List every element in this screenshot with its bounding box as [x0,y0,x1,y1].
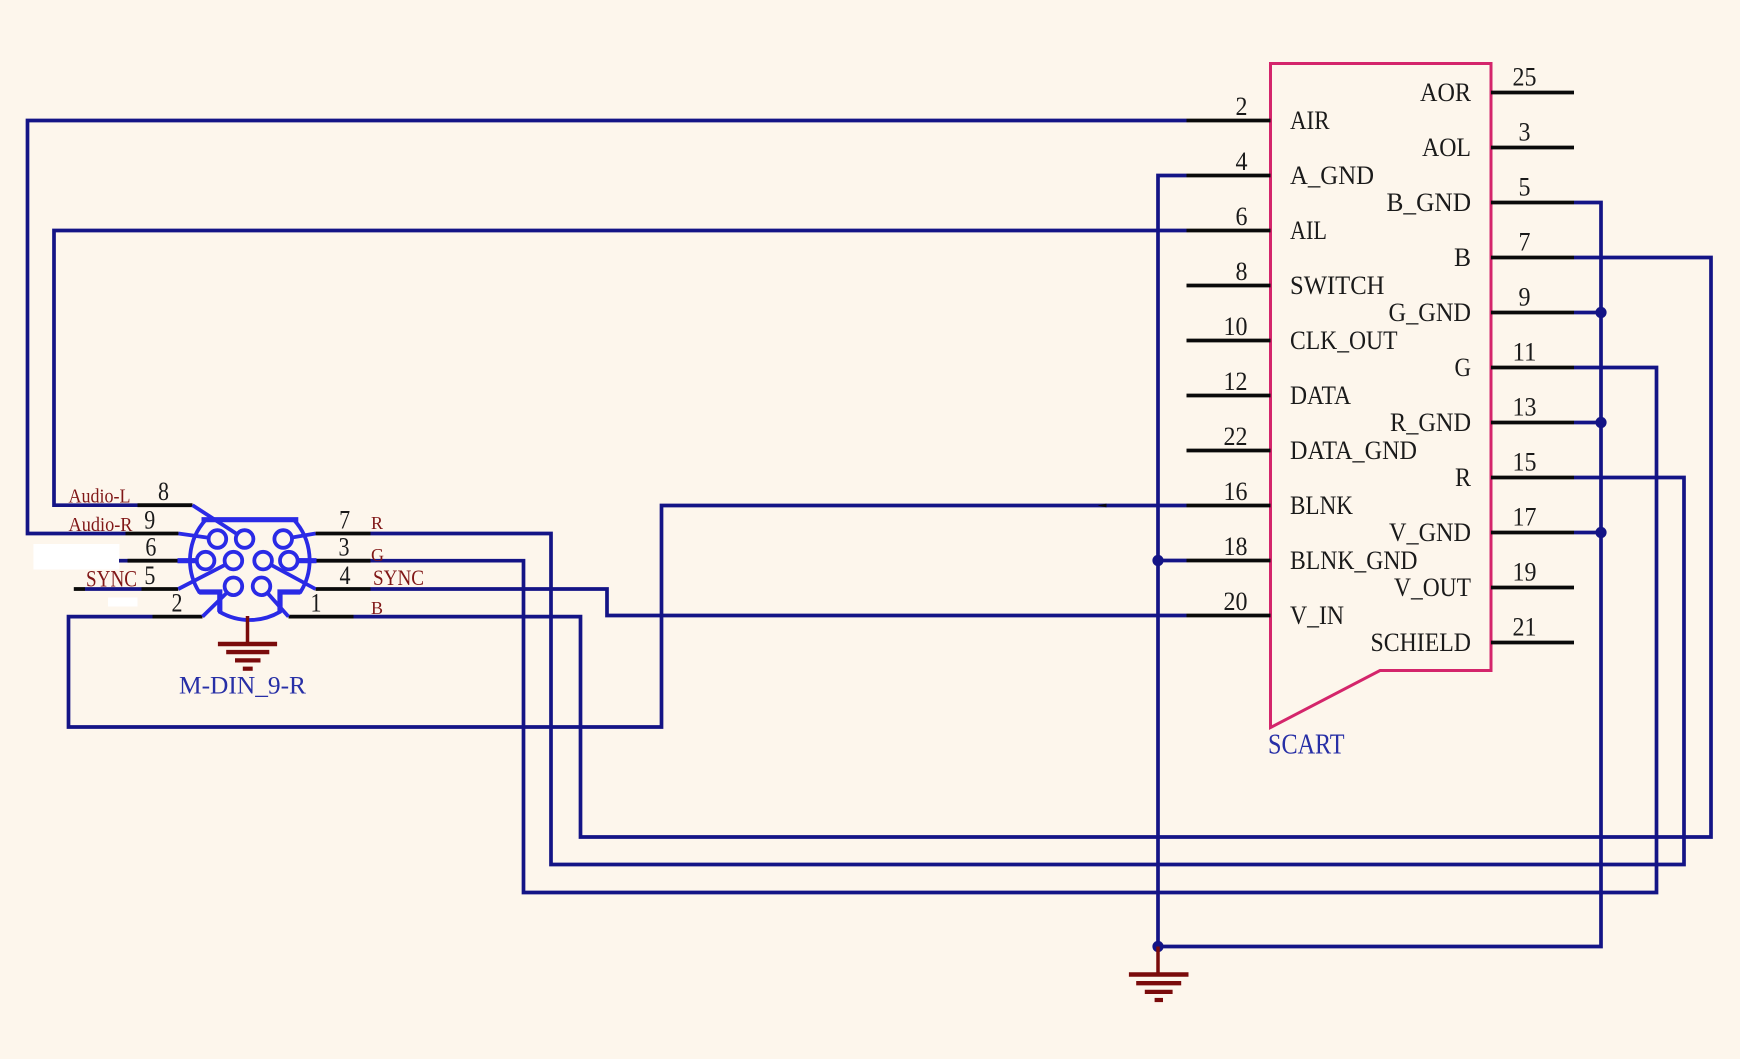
svg-text:R: R [371,513,383,533]
svg-text:AOR: AOR [1420,78,1472,107]
wire net GND: SCART pin4 A_GND vertical [1158,176,1187,947]
wire net GND: link to SCART pin17 [1574,531,1601,535]
white-out patch left of DIN pin 6 [33,544,119,570]
junction dot at ground [1152,941,1163,952]
SCART pin 2 AIR [1187,92,1331,135]
svg-text:5: 5 [1519,173,1531,202]
SCART pin 6 AIL [1187,202,1328,245]
svg-text:B: B [1454,243,1471,272]
svg-text:Audio-R: Audio-R [69,514,134,536]
svg-text:5: 5 [144,561,155,590]
DIN outline right notch (thick) [280,592,300,612]
SCART pin 9 G_GND [1389,283,1575,328]
svg-text:2: 2 [172,589,183,618]
wire net GND: link to SCART pin9 [1574,311,1601,315]
SCART pin 22 DATA_GND [1187,422,1418,465]
svg-text:SWITCH: SWITCH [1290,271,1385,300]
svg-text:2: 2 [1236,92,1248,121]
svg-text:3: 3 [1519,118,1531,147]
svg-text:3: 3 [339,533,350,562]
svg-text:12: 12 [1224,367,1248,396]
svg-text:22: 22 [1224,422,1248,451]
svg-text:G: G [371,545,384,565]
svg-text:DATA_GND: DATA_GND [1290,436,1417,465]
wire net G: DIN pin3 to SCART pin11 [371,368,1657,893]
wire net AIL: SCART pin6 to DIN pin8 [54,231,1187,506]
DIN outline left notch (thick) [199,592,220,612]
svg-text:G: G [1455,353,1472,382]
DIN outline top chord (thick) [202,517,299,522]
wire net B: DIN pin1 to SCART pin7 [354,258,1712,838]
svg-text:M-DIN_9-R: M-DIN_9-R [179,673,306,700]
DIN pin 9 stub [126,506,218,540]
SCART pin 12 DATA [1187,367,1352,410]
svg-text:BLNK_GND: BLNK_GND [1290,546,1418,575]
svg-text:1: 1 [311,589,322,618]
svg-text:SCART: SCART [1268,729,1345,761]
DIN pin 6 stub [128,533,206,562]
SCART pin 11 G [1455,338,1575,383]
SCART pin 20 V_IN [1187,587,1345,630]
DIN pin circles [197,530,298,595]
DIN pin 3 link (thick) [289,558,317,563]
DIN pin 5 stub [142,561,234,590]
svg-text:8: 8 [158,477,169,506]
svg-text:V_OUT: V_OUT [1394,573,1471,602]
svg-text:19: 19 [1513,558,1537,587]
SCART pin 21 SCHIELD [1371,613,1575,658]
svg-text:SYNC: SYNC [373,565,424,590]
SCART pin 16 BLNK [1187,477,1354,520]
svg-text:BLNK: BLNK [1290,491,1353,520]
SCART pin 7 B [1454,228,1574,273]
wire net SYNC stub at DIN pin5 [85,587,142,591]
ground symbol at DIN shield [218,616,277,669]
svg-text:A_GND: A_GND [1290,161,1374,190]
DIN pin 7 stub [283,506,370,540]
svg-text:V_GND: V_GND [1389,518,1471,547]
svg-text:9: 9 [144,506,155,535]
SCART pin 15 R [1455,448,1574,493]
svg-text:Audio-L: Audio-L [69,486,131,508]
wire net R: DIN pin7 to SCART pin15 [371,478,1685,865]
svg-text:AOL: AOL [1422,133,1471,162]
wire net AIR: SCART pin2 to DIN pin9 [28,121,1187,534]
junction dot at pin13 [1595,417,1606,428]
junction dot at pin9 [1595,307,1606,318]
svg-text:B: B [371,598,383,618]
SCART pin 18 BLNK_GND [1187,532,1418,575]
SCART pin 10 CLK_OUT [1187,312,1398,355]
SCART pin 13 R_GND [1390,393,1574,438]
svg-text:SCHIELD: SCHIELD [1371,628,1472,657]
DIN pin 6 link (thick) [178,558,206,563]
wire net GND: stub link to SCART pin18 [1158,559,1187,563]
svg-text:7: 7 [339,506,350,535]
svg-text:9: 9 [1519,283,1531,312]
svg-text:18: 18 [1224,532,1248,561]
wire net V_IN/SYNC: SCART pin20 to DIN pin4 [371,589,1187,616]
DIN pin 4 stub [263,561,370,590]
svg-text:15: 15 [1513,448,1537,477]
junction dot at pin18 [1152,555,1163,566]
svg-text:SYNC: SYNC [86,567,137,593]
svg-text:11: 11 [1513,338,1537,367]
svg-text:6: 6 [1236,202,1248,231]
SCART pin 17 V_GND [1389,503,1574,548]
small black tick on BLNK wire [1098,504,1107,508]
wire stub at DIN pin6 [119,559,128,563]
svg-text:DATA: DATA [1290,381,1351,410]
SCART pin 4 A_GND [1187,147,1375,190]
ground symbol at SCART ground net [1129,947,1189,1001]
wire net GND: bottom run and right vertical to SCART pin5 [1158,203,1601,947]
SYNC stub left black segment [74,587,85,591]
svg-text:7: 7 [1519,228,1531,257]
connector M-DIN_9-R outline [190,520,310,620]
connector SCART outline [1271,64,1492,728]
junction dot at pin17 [1595,527,1606,538]
svg-text:4: 4 [340,561,351,590]
white-out patch below SYNC label [108,598,138,607]
svg-text:10: 10 [1224,312,1248,341]
svg-text:17: 17 [1513,503,1537,532]
svg-text:B_GND: B_GND [1387,188,1472,217]
DIN pin 8 stub [138,477,245,539]
svg-text:25: 25 [1513,63,1537,92]
svg-text:13: 13 [1513,393,1537,422]
wire net BLNK: SCART pin16 to DIN pin2 [69,506,1187,728]
DIN pin 2 stub [153,586,234,617]
wire net GND: link to SCART pin13 [1574,421,1601,425]
svg-text:V_IN: V_IN [1290,601,1344,630]
svg-text:AIR: AIR [1290,106,1330,135]
svg-text:20: 20 [1224,587,1248,616]
SCART pin 25 AOR [1420,63,1574,108]
svg-text:16: 16 [1224,477,1248,506]
svg-text:21: 21 [1513,613,1537,642]
svg-text:R: R [1455,463,1472,492]
svg-text:R_GND: R_GND [1390,408,1471,437]
svg-text:G_GND: G_GND [1389,298,1472,327]
SCART pin 5 B_GND [1387,173,1575,218]
SCART pin 19 V_OUT [1394,558,1574,603]
svg-text:4: 4 [1236,147,1248,176]
svg-text:6: 6 [145,533,156,562]
svg-text:AIL: AIL [1290,216,1327,245]
svg-text:CLK_OUT: CLK_OUT [1290,326,1398,355]
DIN pin 1 stub [262,586,354,617]
SCART pin 8 SWITCH [1187,257,1385,300]
SCART pin 3 AOL [1422,118,1574,163]
svg-text:8: 8 [1236,257,1248,286]
DIN pin 3 stub [289,533,371,562]
